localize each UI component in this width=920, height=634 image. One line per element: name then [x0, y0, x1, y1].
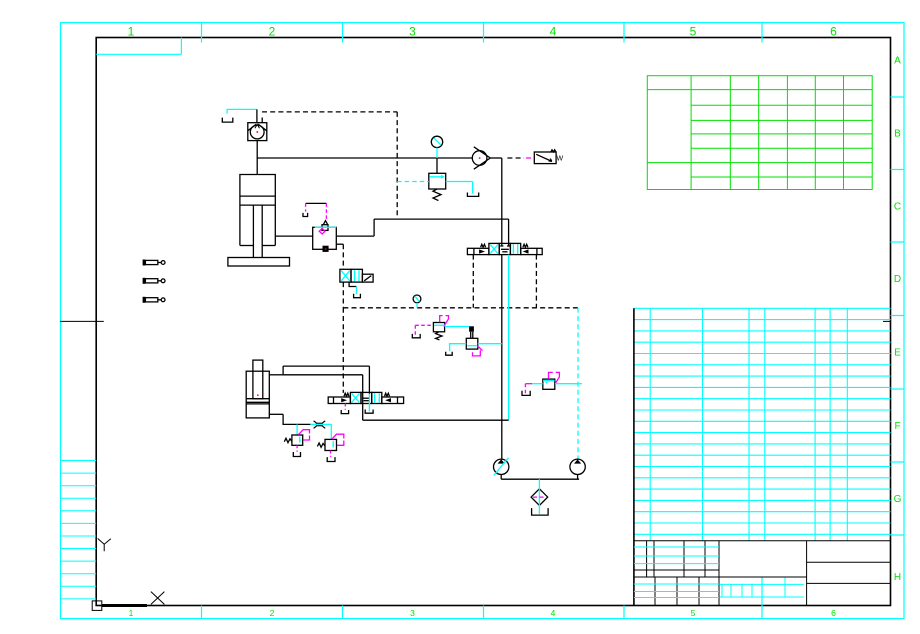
svg-text:4: 4	[551, 608, 556, 618]
svg-text:5: 5	[690, 25, 697, 39]
svg-text:2: 2	[269, 25, 276, 39]
svg-text:G: G	[894, 494, 902, 505]
svg-text:E: E	[894, 348, 901, 359]
svg-text:D: D	[894, 274, 901, 285]
svg-text:B: B	[894, 129, 901, 140]
svg-text:3: 3	[409, 25, 416, 39]
svg-text:4: 4	[550, 25, 557, 39]
svg-text:6: 6	[831, 608, 836, 618]
svg-text:W: W	[557, 156, 564, 163]
svg-text:A: A	[894, 56, 901, 67]
svg-text:5: 5	[691, 608, 696, 618]
svg-text:1: 1	[129, 608, 134, 618]
svg-text:3: 3	[410, 608, 415, 618]
svg-text:C: C	[894, 202, 901, 213]
svg-text:H: H	[894, 572, 901, 583]
svg-text:1: 1	[128, 25, 135, 39]
svg-text:6: 6	[830, 25, 837, 39]
svg-text:F: F	[894, 421, 900, 432]
svg-text:2: 2	[270, 608, 275, 618]
